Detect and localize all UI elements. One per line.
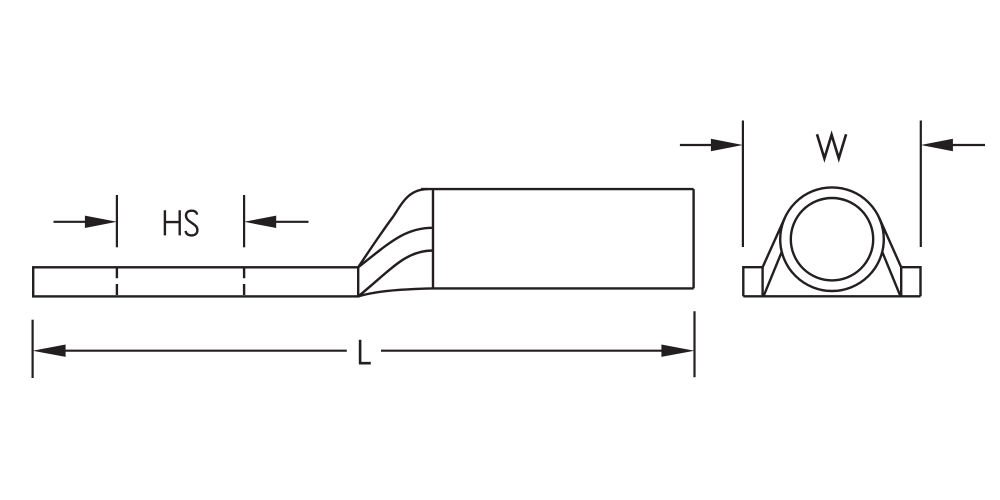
L left extension line	[31, 320, 33, 378]
heat-shrink dashed line 2	[243, 267, 245, 296]
HS right arrow line	[275, 221, 309, 223]
end view base plate bottom	[743, 295, 920, 297]
left inner gusset line	[764, 252, 782, 297]
HS left arrowhead	[85, 216, 117, 228]
L right arrowhead	[661, 345, 694, 357]
barrel top line (side view)	[421, 188, 694, 190]
label HS : letter S	[186, 211, 198, 236]
flare transition middle curve	[358, 228, 433, 267]
L dim line right segment	[381, 350, 662, 352]
flare transition lower curve	[358, 251, 433, 297]
HS left extension line	[116, 195, 118, 247]
barrel left edge (side view)	[432, 189, 434, 288]
right inner gusset line	[882, 252, 900, 297]
HS left arrow line	[54, 221, 87, 223]
W left arrow line	[680, 144, 712, 146]
label W	[817, 134, 846, 158]
W right arrow line	[952, 144, 985, 146]
right outer gusset line	[879, 218, 901, 267]
transition bottom line	[358, 288, 433, 296]
barrel bottom line (side view)	[433, 287, 694, 289]
flare transition top curve	[358, 189, 428, 267]
W right extension line	[920, 121, 922, 248]
L dim line left segment	[64, 350, 347, 352]
W right arrowhead	[921, 139, 953, 151]
L left arrowhead	[33, 345, 66, 357]
W left arrowhead	[711, 139, 743, 151]
W left extension line	[742, 121, 744, 248]
HS right arrowhead	[244, 216, 276, 228]
end view right foot	[901, 267, 920, 296]
label L	[359, 340, 371, 363]
barrel inner circle (end view)	[791, 198, 873, 280]
lug tongue (side view pad)	[33, 267, 358, 296]
L right extension line	[693, 311, 695, 377]
HS right extension line	[243, 195, 245, 247]
label HS : letter H	[165, 210, 180, 235]
end view left foot	[743, 267, 762, 296]
heat-shrink dashed line 1	[116, 267, 118, 296]
barrel right edge (side view)	[692, 189, 694, 288]
left outer gusset line	[763, 218, 785, 267]
barrel outer circle (end view)	[780, 187, 884, 291]
